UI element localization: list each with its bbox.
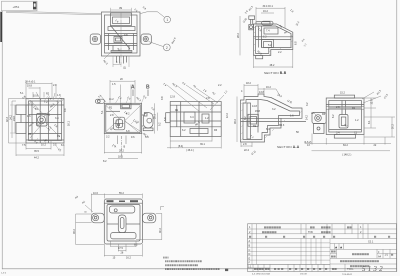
svg-text:6.8: 6.8	[126, 130, 130, 133]
bottom view right dimension 40.2	[136, 213, 162, 239]
svg-text:2.8: 2.8	[336, 106, 340, 109]
svg-text:6.2: 6.2	[332, 114, 335, 118]
svg-text:8.2: 8.2	[244, 116, 247, 120]
section B-B left dimension	[237, 16, 240, 55]
section cut arrows under letters	[133, 90, 148, 97]
svg-text:10.2: 10.2	[41, 144, 46, 147]
title box top-left	[2, 1, 38, 11]
rear view right dim texts	[368, 99, 395, 129]
center view bottom section marks A B	[112, 136, 126, 160]
top view left mounting ear	[90, 34, 100, 44]
revision table rows	[248, 239, 331, 272]
svg-text:28.2: 28.2	[119, 150, 124, 153]
svg-text:9.8: 9.8	[64, 108, 67, 112]
rear view parting band	[326, 107, 364, 110]
front view body (middle-left)	[16, 99, 64, 144]
center view bottom dimensions	[103, 134, 142, 163]
side view callout texts	[161, 81, 229, 132]
svg-text:5.1: 5.1	[101, 110, 104, 114]
front view dimensions bottom	[16, 134, 64, 160]
title block right section	[330, 241, 397, 274]
svg-text:3.4: 3.4	[190, 116, 194, 119]
svg-text:1.6: 1.6	[290, 115, 294, 118]
sheet fold mark left-center	[161, 207, 165, 211]
svg-text:1: 1	[166, 18, 168, 22]
svg-text:(8.4): (8.4)	[178, 145, 183, 148]
top view misc leader texts	[102, 19, 128, 66]
top plan view body	[102, 12, 141, 64]
svg-text:D: D	[249, 253, 251, 256]
side view body (middle, right of center)	[166, 102, 222, 137]
title block outer	[248, 224, 397, 272]
bottom-left corner mark	[1, 273, 7, 275]
section B-B top dimensions	[244, 5, 294, 28]
svg-text:18.6: 18.6	[118, 156, 123, 159]
svg-text:1/1: 1/1	[385, 254, 389, 257]
svg-text:2.2: 2.2	[278, 51, 282, 54]
svg-text:9.2: 9.2	[159, 122, 162, 126]
svg-text:38.4 ±0.1: 38.4 ±0.1	[25, 81, 36, 84]
svg-text:11.2: 11.2	[109, 98, 114, 101]
svg-text:28.2: 28.2	[237, 33, 240, 38]
notes bottom-left	[163, 257, 228, 272]
svg-text:15.8: 15.8	[255, 110, 260, 113]
svg-text:42.3: 42.3	[6, 117, 9, 122]
svg-text:49.2: 49.2	[73, 229, 76, 234]
svg-text:12.2: 12.2	[226, 113, 229, 118]
svg-text:16.2: 16.2	[266, 86, 271, 89]
svg-text:1:1: 1:1	[248, 266, 252, 269]
svg-text:2.2: 2.2	[218, 84, 222, 87]
bottom view left mounting ear	[91, 213, 104, 223]
svg-text:19.8: 19.8	[27, 85, 32, 88]
svg-text:16.2: 16.2	[126, 257, 131, 260]
section A-A hatch ticks	[241, 102, 302, 140]
surface finish mark right margin	[301, 38, 308, 48]
svg-text:1-5 6: 1-5 6	[1, 273, 7, 275]
rear view body (far right)	[312, 95, 364, 138]
svg-text:16.1: 16.1	[68, 121, 71, 126]
svg-text:44.2: 44.2	[34, 156, 39, 159]
svg-text:39.1: 39.1	[200, 143, 205, 146]
section A-A inner texts	[244, 105, 309, 139]
section A-A top dimensions	[241, 82, 293, 104]
faint microtext below title block	[252, 273, 353, 276]
svg-text:6.8: 6.8	[295, 41, 298, 45]
title block bottom-left approval row	[248, 264, 331, 271]
svg-text:3.2: 3.2	[263, 36, 267, 39]
svg-text:1.5: 1.5	[112, 83, 116, 86]
svg-text:10.8: 10.8	[33, 95, 38, 98]
center view extra leaders	[115, 97, 144, 135]
svg-text:16.2: 16.2	[263, 10, 268, 13]
front view extra leaders	[10, 95, 61, 150]
svg-text:1.2: 1.2	[205, 117, 209, 120]
section A-A bottom dims	[241, 142, 257, 156]
svg-text:47.5: 47.5	[118, 247, 123, 250]
svg-text:39: 39	[119, 6, 123, 10]
section letters A and B above center view	[131, 85, 150, 91]
border frame right	[396, 0, 398, 272]
svg-text:6.4: 6.4	[266, 128, 270, 131]
dark revision bar left edge	[0, 12, 2, 42]
center view crossing diagonals	[100, 95, 140, 134]
svg-text:2.8: 2.8	[206, 97, 210, 100]
svg-text:3.2: 3.2	[306, 102, 309, 106]
svg-text:49.2: 49.2	[234, 119, 237, 124]
svg-text:20.2: 20.2	[392, 124, 395, 129]
bottom view right mounting ear	[142, 213, 155, 223]
rear view left small callouts	[306, 102, 318, 117]
svg-text:8.2: 8.2	[103, 160, 107, 163]
svg-text:9.8: 9.8	[161, 96, 164, 100]
svg-text:10.6: 10.6	[93, 192, 98, 195]
svg-text:5132: 5132	[362, 265, 385, 273]
section A-A left dimension 49.2	[234, 97, 237, 143]
border frame bottom	[2, 268, 397, 270]
svg-text:5.4: 5.4	[145, 136, 149, 139]
svg-text:48.2: 48.2	[270, 64, 275, 67]
svg-text:1.6: 1.6	[27, 115, 31, 118]
svg-text:7.2: 7.2	[44, 101, 48, 104]
balloon 1	[164, 16, 171, 23]
svg-text:R0.3: R0.3	[279, 124, 285, 127]
svg-text:7.5: 7.5	[22, 144, 26, 147]
svg-text:C0.1: C0.1	[368, 241, 374, 244]
title block upper sub-table	[248, 224, 397, 239]
svg-text:3.4: 3.4	[336, 132, 340, 135]
svg-text:9.6: 9.6	[131, 136, 135, 139]
svg-text:28.1: 28.1	[154, 114, 157, 119]
top view inlet channel top-left	[6, 11, 101, 15]
svg-text:2.8: 2.8	[53, 84, 57, 87]
center view small dim texts	[98, 94, 162, 139]
svg-text:5.2: 5.2	[268, 44, 272, 47]
section B-B view body (top right)	[249, 16, 293, 59]
bottom view body	[104, 199, 142, 244]
svg-text:C: C	[249, 249, 251, 252]
svg-text:2: 2	[166, 46, 168, 50]
bottom view left dimension 49.2	[73, 211, 105, 245]
center view top dimension 20	[110, 78, 135, 103]
rear view inner texts	[322, 92, 359, 135]
section B-B bottom dimension 48.2	[254, 50, 293, 69]
svg-text:14.8: 14.8	[252, 105, 257, 108]
svg-text:TO6-: TO6-	[347, 267, 354, 271]
rear view bottom dimensions	[305, 134, 391, 157]
svg-text:8.1: 8.1	[368, 120, 371, 124]
svg-text:8.1: 8.1	[61, 144, 65, 147]
svg-text:1.2: 1.2	[355, 119, 359, 122]
bottom view dark top marks	[107, 200, 139, 202]
svg-text:SECTION B-B: SECTION B-B	[264, 71, 287, 75]
svg-text:3.2: 3.2	[106, 136, 110, 139]
svg-text:4.2: 4.2	[126, 113, 130, 116]
svg-text:35.5: 35.5	[34, 150, 39, 153]
leader to balloon 1	[141, 12, 165, 17]
svg-text:15.2: 15.2	[340, 92, 345, 95]
svg-text:4-6 1992.05.18 A3: 4-6 1992.05.18 A3	[252, 273, 271, 276]
center view body	[96, 99, 154, 133]
balloon 2	[163, 44, 170, 51]
svg-text:0.8: 0.8	[124, 34, 128, 37]
front view dimensions top	[20, 81, 61, 99]
svg-text:5.1: 5.1	[20, 92, 24, 95]
svg-text:+851: +851	[13, 5, 20, 9]
rear view rotated callouts top-right	[362, 89, 389, 103]
svg-text:3.2: 3.2	[272, 108, 276, 111]
svg-text:12.8: 12.8	[170, 96, 175, 99]
svg-text:55.2: 55.2	[119, 192, 124, 195]
svg-text:18.2: 18.2	[246, 82, 251, 85]
front view dimensions left	[6, 99, 26, 144]
leader to balloon 2	[149, 42, 164, 47]
svg-text:40.2: 40.2	[159, 228, 162, 233]
svg-text:7.4: 7.4	[266, 30, 270, 33]
svg-text:2.8: 2.8	[243, 143, 247, 146]
svg-text:22.4: 22.4	[244, 149, 249, 152]
svg-text:6.2: 6.2	[182, 129, 186, 132]
dimension 39 above top view	[111, 8, 132, 13]
svg-text:30.4 ±0.1: 30.4 ±0.1	[263, 5, 274, 8]
top view centerline	[120, 13, 122, 68]
dimension 4 below top view	[113, 56, 129, 67]
side view long callout leaders	[167, 85, 224, 112]
section B-B hatch ticks	[254, 27, 293, 56]
section B-B inner texts	[242, 18, 300, 57]
svg-text:13.8: 13.8	[259, 91, 264, 94]
svg-text:SECTION A-A: SECTION A-A	[277, 145, 300, 149]
top view right mounting ear	[141, 34, 151, 44]
svg-text:2.8: 2.8	[110, 114, 114, 117]
svg-text:3.4: 3.4	[55, 117, 59, 120]
bottom view top dimensions	[75, 192, 143, 213]
svg-text:24.6: 24.6	[13, 116, 16, 121]
title block upper texts	[249, 226, 390, 238]
bottom view bottom dimensions	[104, 241, 142, 260]
svg-text:( 46.4 ): ( 46.4 )	[186, 149, 194, 152]
svg-text:84.2: 84.2	[343, 144, 348, 147]
svg-text:5.8: 5.8	[164, 117, 167, 121]
top view hatched gasket strip	[111, 50, 133, 53]
section A-A view body (middle right)	[241, 94, 307, 142]
front view leader diagonals	[30, 92, 60, 138]
border frame left	[1, 11, 3, 269]
svg-text:TO6: TO6	[308, 231, 313, 234]
revision row letters	[249, 240, 251, 265]
rear view right extension lines	[364, 98, 395, 137]
svg-text:8.2: 8.2	[134, 243, 138, 246]
svg-text:155 08: 155 08	[300, 274, 307, 276]
side view bottom dimensions	[167, 137, 221, 152]
svg-text:(1): (1)	[123, 67, 126, 70]
svg-text:14.2: 14.2	[306, 115, 309, 120]
front view misc small texts	[22, 95, 71, 152]
svg-text:( 148.2 ): ( 148.2 )	[342, 154, 351, 157]
